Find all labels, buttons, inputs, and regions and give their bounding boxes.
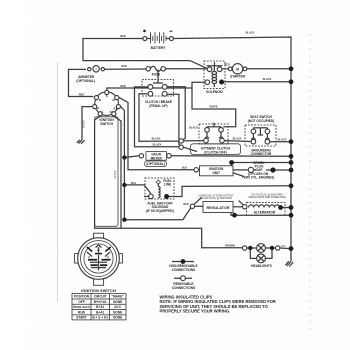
svg-text:B + S + A1: B + S + A1 <box>92 316 108 320</box>
svg-text:LINE: LINE <box>164 183 171 187</box>
svg-text:RED: RED <box>224 64 229 67</box>
svg-text:HEADLIGHTS: HEADLIGHTS <box>251 264 272 268</box>
svg-text:START: START <box>76 316 86 320</box>
svg-text:CONNECTIONS: CONNECTIONS <box>172 286 196 290</box>
svg-text:(OPTIONAL): (OPTIONAL) <box>76 79 95 83</box>
svg-text:SWITCH: SWITCH <box>100 122 113 126</box>
svg-text:ALTERNATOR: ALTERNATOR <box>254 211 276 215</box>
svg-text:CIRCUIT: CIRCUIT <box>94 295 107 299</box>
svg-text:CONNECTOR: CONNECTOR <box>251 152 272 156</box>
svg-text:WHITE: WHITE <box>114 170 117 178</box>
svg-text:RED: RED <box>121 65 126 68</box>
svg-text:(OPTIONAL): (OPTIONAL) <box>146 162 165 166</box>
svg-text:BROWN: BROWN <box>225 245 235 248</box>
svg-text:G: G <box>97 106 99 110</box>
svg-text:BLACK: BLACK <box>82 120 85 129</box>
svg-text:NONE: NONE <box>113 316 122 320</box>
svg-text:S: S <box>106 94 108 98</box>
svg-text:BLK: BLK <box>182 167 187 170</box>
svg-text:BLK: BLK <box>281 245 286 248</box>
svg-text:(PEDAL UP): (PEDAL UP) <box>149 104 167 108</box>
svg-text:IGNITION SWITCH: IGNITION SWITCH <box>81 288 116 293</box>
svg-text:BLK: BLK <box>131 182 136 185</box>
svg-text:SOLENOID: SOLENOID <box>206 90 223 94</box>
svg-text:TWIN CYL. ENGINES): TWIN CYL. ENGINES) <box>242 176 275 180</box>
svg-text:RED: RED <box>79 93 84 96</box>
svg-text:M+G+A1: M+G+A1 <box>94 300 107 304</box>
svg-text:CONNECTIONS: CONNECTIONS <box>172 268 196 272</box>
svg-text:BLACK: BLACK <box>189 126 198 129</box>
svg-text:BLACK: BLACK <box>233 137 242 140</box>
svg-text:RED: RED <box>120 35 125 38</box>
svg-text:(REGULATOR DISCONNECTED): (REGULATOR DISCONNECTED) <box>248 196 286 199</box>
svg-text:NONE: NONE <box>113 300 122 304</box>
svg-text:"MAKE": "MAKE" <box>111 295 124 299</box>
svg-text:B+A1: B+A1 <box>96 310 104 314</box>
svg-text:ACC: ACC <box>114 305 122 309</box>
svg-text:METER: METER <box>151 156 163 160</box>
svg-text:STARTER: STARTER <box>230 74 246 78</box>
svg-text:FUSE: FUSE <box>152 73 161 77</box>
svg-text:M: M <box>236 67 239 71</box>
svg-text:NONE: NONE <box>113 310 122 314</box>
svg-text:(IF SO EQUIPPED): (IF SO EQUIPPED) <box>146 209 174 213</box>
svg-text:RUN: RUN <box>78 310 86 314</box>
svg-text:POSITION: POSITION <box>74 295 90 299</box>
svg-text:OFF: OFF <box>78 300 84 304</box>
svg-text:A1: A1 <box>113 106 117 110</box>
svg-text:BLACK: BLACK <box>263 78 272 81</box>
svg-text:(CLUTCH OFF): (CLUTCH OFF) <box>204 150 226 154</box>
svg-text:BLACK: BLACK <box>278 139 287 142</box>
svg-text:28 VOLTS DC @ 3600 RPM: 28 VOLTS DC @ 3600 RPM <box>200 197 232 200</box>
svg-text:RED: RED <box>183 203 188 206</box>
svg-text:PROPERLY SECURE YOUR WIRING.: PROPERLY SECURE YOUR WIRING. <box>160 309 231 314</box>
svg-text:BLACK: BLACK <box>246 32 255 35</box>
svg-text:UNIT: UNIT <box>212 171 219 175</box>
svg-text:(NOT OCCUPIED): (NOT OCCUPIED) <box>248 119 275 123</box>
svg-text:B+A1: B+A1 <box>96 305 104 309</box>
svg-text:M: M <box>88 256 90 259</box>
svg-text:BLACK: BLACK <box>153 143 162 146</box>
svg-text:REGULATOR: REGULATOR <box>206 206 229 210</box>
svg-text:IGNITION: IGNITION <box>100 118 115 122</box>
svg-text:RED: RED <box>120 85 125 88</box>
svg-text:BLACK: BLACK <box>152 138 161 141</box>
svg-text:RUN(LIGHT): RUN(LIGHT) <box>73 305 90 309</box>
svg-text:B: B <box>99 98 101 102</box>
svg-text:WHITE: WHITE <box>209 106 217 109</box>
svg-text:BATTERY: BATTERY <box>151 46 167 50</box>
svg-text:A2: A2 <box>109 110 113 114</box>
